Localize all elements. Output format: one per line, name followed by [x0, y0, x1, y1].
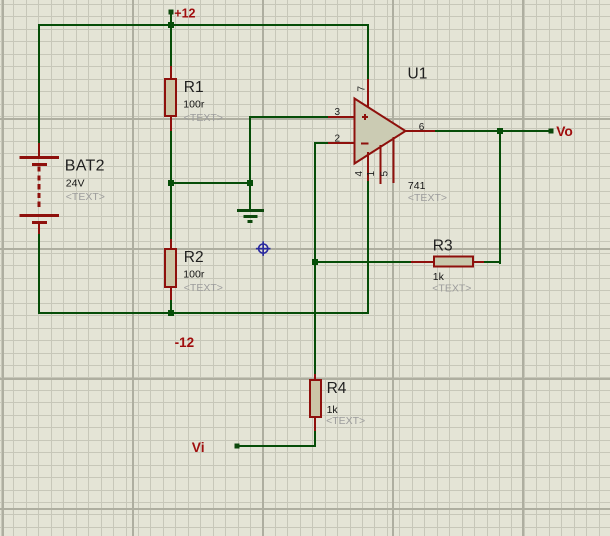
wire R2 to -12 rail	[170, 299, 172, 314]
svg-text:+12: +12	[174, 7, 195, 21]
svg-text:Vo: Vo	[556, 124, 573, 139]
svg-text:<TEXT>: <TEXT>	[184, 282, 223, 294]
wire battery + up to top rail	[38, 24, 40, 144]
wire feedback vertical	[499, 130, 501, 264]
svg-text:<TEXT>: <TEXT>	[66, 191, 105, 203]
resistor R4	[310, 374, 321, 431]
wire R1 to R2	[170, 130, 172, 240]
svg-text:1k: 1k	[327, 404, 339, 416]
svg-text:4: 4	[354, 171, 365, 177]
wire inverting node vertical	[314, 142, 316, 376]
svg-text:100r: 100r	[183, 268, 205, 280]
svg-text:7: 7	[356, 86, 367, 92]
battery BAT2	[20, 143, 60, 234]
resistor R3	[411, 257, 484, 267]
wire R4 down to Vi corner	[314, 430, 316, 447]
wire pin 2 horizontal	[314, 142, 329, 144]
wire node to pin3 riser	[249, 117, 251, 184]
svg-text:U1: U1	[408, 65, 428, 82]
junction inverting node	[312, 259, 318, 265]
wire Vi horizontal	[237, 445, 316, 447]
ground	[237, 211, 264, 222]
wire rail corner down to pin 7	[367, 24, 369, 80]
resistor R1	[165, 66, 176, 131]
svg-text:BAT2: BAT2	[65, 158, 105, 175]
junction output feedback	[497, 128, 503, 134]
resistor R2	[165, 239, 176, 300]
svg-text:100r: 100r	[183, 98, 205, 110]
terminal Vi	[235, 444, 240, 449]
svg-text:3: 3	[335, 107, 341, 118]
svg-text:<TEXT>: <TEXT>	[184, 112, 223, 124]
svg-text:R3: R3	[433, 237, 453, 254]
svg-text:1: 1	[366, 171, 377, 177]
svg-text:5: 5	[380, 171, 391, 177]
svg-text:Vi: Vi	[192, 440, 205, 455]
power terminal +12	[169, 10, 174, 15]
wire node to R3	[314, 261, 413, 263]
origin crosshair marker	[256, 241, 271, 256]
svg-text:<TEXT>: <TEXT>	[432, 282, 471, 294]
wire R3 to feedback	[483, 261, 501, 263]
wire +12 terminal down to R1	[170, 12, 172, 67]
svg-text:6: 6	[419, 122, 425, 133]
svg-text:R1: R1	[184, 79, 204, 96]
junction -12 rail	[168, 310, 174, 316]
svg-text:24V: 24V	[66, 178, 85, 190]
wire output to Vo	[434, 130, 551, 132]
wire bottom -12 rail	[38, 312, 369, 314]
junction ground node	[247, 180, 253, 186]
wire mid node branch	[171, 182, 251, 184]
terminal Vo	[549, 129, 554, 134]
junction R1-R2 node	[168, 180, 174, 186]
wire pin 4 down to rail	[367, 180, 369, 314]
svg-text:741: 741	[408, 180, 426, 192]
wire down to ground	[249, 183, 251, 209]
wire to pin 3	[249, 116, 329, 118]
svg-text:R2: R2	[184, 249, 204, 266]
wire battery - down to bottom rail	[38, 232, 40, 314]
svg-text:-12: -12	[175, 335, 195, 350]
junction +12 rail	[168, 22, 174, 28]
svg-text:2: 2	[335, 134, 341, 145]
svg-text:R4: R4	[327, 380, 347, 397]
wire top +12 rail	[38, 24, 369, 26]
svg-text:<TEXT>: <TEXT>	[408, 192, 447, 204]
svg-text:<TEXT>: <TEXT>	[326, 415, 365, 427]
op-amp U1	[328, 79, 435, 184]
